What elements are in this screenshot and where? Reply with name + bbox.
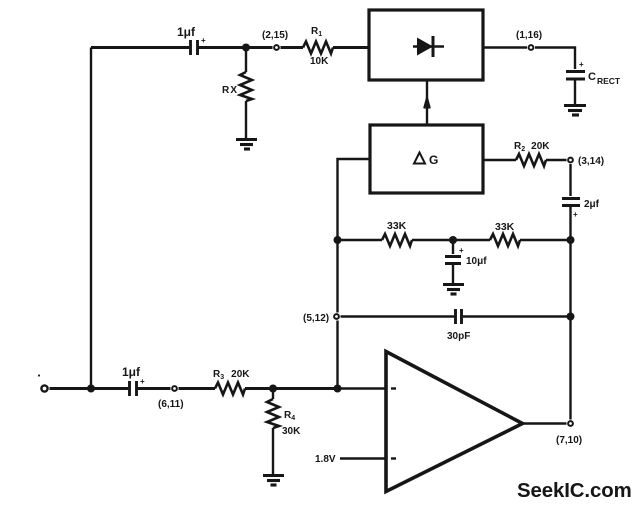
node junction (R4 tap) [269,385,277,393]
svg-text:+: + [573,210,578,219]
svg-text:10K: 10K [310,56,329,67]
capacitor 30pF [456,309,462,324]
scan speck [38,374,40,376]
wire left vertical rail [90,48,92,389]
wire top from left corner to capacitor [91,46,189,49]
node junction (mid rail / bottom line) [334,385,342,393]
wire gain block right to R2 [483,159,516,162]
svg-text:(1,16): (1,16) [516,30,542,41]
diode D1 [413,36,444,57]
svg-text:+: + [579,60,584,69]
resistor R3 [215,383,245,395]
svg-text:(6,11): (6,11) [158,399,184,410]
svg-text:2μf: 2μf [584,199,600,210]
resistor R2 [516,154,546,166]
svg-text:+: + [140,377,145,386]
resistor R1 [303,42,333,54]
wire terminal to R3 [179,387,216,390]
gain block U2 (delta G) [370,125,483,193]
svg-text:R320K: R320K [213,369,250,381]
terminal (2,15) open circle [274,45,279,50]
node junction (mid rail / 33K line) [334,236,342,244]
wire mid rail below terminal [336,321,338,389]
wire node to terminal (2,15) [246,46,273,49]
wire C_RECT to ground [574,81,576,105]
node junction (10uf tap) [449,236,457,244]
node junction (left rail / bottom line) [87,385,95,393]
capacitor C_RECT [566,72,585,80]
op-amp + input mark [391,387,396,389]
svg-text:30pF: 30pF [447,331,470,342]
svg-text:10μf: 10μf [466,256,487,267]
node junction (right rail / 33K line) [567,236,575,244]
wire 33K line left segment [338,239,383,242]
op-amp U3 [386,352,523,492]
node junction (right rail / 30pF line) [567,313,575,321]
terminal (7,10) open circle [568,421,573,426]
svg-text:CRECT: CRECT [588,71,621,86]
resistor R4 [267,389,279,475]
wire gain block left to mid rail [338,159,371,240]
svg-text:1μf: 1μf [177,25,196,39]
wire right rail 33K node to 30pF node [569,240,571,317]
wire input to left rail node [50,387,92,390]
svg-text:SeekIC.com: SeekIC.com [517,480,632,502]
svg-text:RX: RX [222,85,238,96]
svg-text:1μf: 1μf [122,365,141,379]
ground (C_RECT) [564,106,586,116]
wire rectifier output to terminal (1,16) [483,46,527,49]
wire terminal to C_RECT [535,48,575,70]
wire 30pF line left segment [341,315,455,318]
resistor 33K (left) [382,234,412,246]
svg-text:+: + [201,36,206,45]
wire 33K to right rail [520,239,571,242]
wire 10uf tap down [452,240,454,254]
svg-text:1.8V: 1.8V [315,454,336,465]
wire 1.8V to op-amp [340,457,386,460]
terminal (3,14) open circle [568,158,573,163]
wire terminal to R1 [281,46,304,49]
ground (RX) [236,140,257,150]
wire between 33K resistors [412,239,490,242]
ground (R4) [263,476,284,486]
capacitor C 1uf (top) [191,40,198,55]
wire 10uf to ground [452,265,454,283]
svg-text:R220K: R220K [514,141,550,153]
label delta G [414,153,438,168]
resistor RX [240,48,252,139]
wire mid rail node to terminal (5,12) [336,240,338,313]
wire 2uf to node [569,207,571,240]
svg-text:+: + [459,246,464,255]
wire R2 to terminal (3,14) [546,159,567,162]
wire 30pF line right segment [463,315,571,318]
rectifier box U1 [369,10,483,80]
input terminal (bottom-left) open circle [41,385,47,391]
terminal (5,12) open circle [334,314,339,319]
svg-text:33K: 33K [495,221,515,233]
op-amp - input mark [391,457,396,459]
svg-text:(5,12): (5,12) [303,313,329,324]
wire R1 to rectifier box [333,46,369,49]
svg-text:(3,14): (3,14) [578,156,604,167]
wire op-amp output to terminal (7,10) [523,422,567,425]
svg-text:(7,10): (7,10) [556,435,582,446]
resistor 33K (right) [490,234,520,246]
wire node to 1uf (bottom) [91,387,128,390]
wire right rail from 30pF node to output [569,317,571,420]
capacitor 10uf [445,257,461,264]
ground (10uf) [443,285,464,295]
terminal (6,11) open circle [172,386,177,391]
terminal (1,16) open circle [529,45,534,50]
svg-text:33K: 33K [387,220,407,232]
node junction dot at RX [242,44,250,52]
svg-text:(2,15): (2,15) [262,30,288,41]
wire R3 to R4 node [245,387,273,390]
capacitor 2uf [562,199,580,206]
wire cap to terminal (6,11) [138,387,171,390]
svg-text:G: G [429,153,438,167]
svg-text:R4: R4 [284,410,295,422]
wire rectifier to gain block with up arrow [424,80,429,125]
svg-text:R1: R1 [311,26,322,38]
wire terminal (3,14) down to 2uf [569,164,571,196]
wire cap to node (2,15) [199,46,247,49]
capacitor C 1uf (bottom) [130,381,137,396]
wire node to op-amp input [338,387,387,390]
svg-text:30K: 30K [282,426,301,437]
wire R4 node to mid rail node [273,387,338,390]
